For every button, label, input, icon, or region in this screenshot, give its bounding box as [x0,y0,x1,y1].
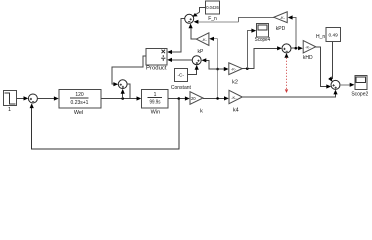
scope block Scope2 [351,75,368,97]
svg-text:kPD: kPD [276,26,286,32]
svg-text:-K-: -K- [231,95,237,100]
svg-text:Wel: Wel [74,110,83,116]
wire junction left into SumC right input [202,58,218,69]
svg-text:F_n: F_n [208,16,217,22]
product block Product (inputs on right side) [146,48,167,71]
scope block Scope4 [255,23,271,43]
svg-text:-K-: -K- [305,45,311,50]
constant block H_n 0.49 [316,28,340,42]
sum junction Sum1 [28,94,37,103]
svg-text:Scope2: Scope2 [351,92,368,98]
wire kHD right then down into Sum3 left input [316,47,331,89]
transfer function block Win 1/99.9s [142,90,169,116]
step source block "1" [4,91,17,114]
transfer function block Wel 120/(0.23s+1) [59,89,101,116]
feedback wire down, left, up into Sum1 bottom [30,99,179,150]
wire Sum4 output right into kHD [291,46,303,50]
main wire Wel to Win [101,96,141,100]
sum junction Sum2 [118,80,127,89]
wire k2 out right then up into Sum4 left input [242,46,282,68]
wire F_n left then down into SumF top-right [193,7,206,16]
svg-text:k2: k2 [232,80,238,86]
sum junction Sum4 [282,44,291,53]
svg-text:-K-: -K- [202,37,208,42]
gain triangle k (20) [190,92,203,115]
svg-text:H_n: H_n [316,34,325,40]
wire k to k4 [203,96,229,100]
wire SumC output left into Product divide port [167,58,192,62]
wire Sum3 output into Scope2 [340,83,355,87]
wire Win to gain k [168,96,190,100]
svg-text:0.0426: 0.0426 [206,5,219,10]
gain triangle kPD (points left) [274,12,287,32]
svg-text:Scope4: Scope4 [255,37,271,43]
constant block F_n 0.0426 [206,1,220,22]
svg-text:-C-: -C- [177,72,184,78]
gain triangle kP (points left) [196,33,209,55]
svg-text:0.49: 0.49 [329,33,339,39]
svg-text:kP: kP [197,49,204,55]
wire branch up into Scope4 [247,29,256,69]
wire SumF output down into Product multiply port [167,19,185,55]
svg-text:1: 1 [8,107,11,113]
wire kP output left then up into SumF bottom [189,24,197,40]
wire H_n down into Sum3 top-left [328,42,332,82]
svg-text:Win: Win [151,109,160,115]
svg-text:120: 120 [75,92,84,98]
wire Sum2 output right and down to main line [127,84,130,98]
junction dot feedback tap [178,97,181,100]
wire Constant right then up into SumC bottom [187,65,198,75]
svg-text:0.23s+1: 0.23s+1 [71,100,89,106]
svg-text:-K-: -K- [280,15,286,20]
junction dot on main line below Sum2 [121,97,124,100]
wire gray line top into gain kP input [209,37,217,41]
wire junction right into gain k2 input [218,67,229,71]
sum junction Sum3 [331,80,340,89]
gain triangle k2 [229,63,242,86]
gain triangle kHD [303,41,316,61]
svg-text:Product: Product [146,66,167,72]
svg-text:-K-: -K- [231,66,237,71]
svg-text:99.9s: 99.9s [150,99,161,105]
svg-text:Constant: Constant [171,85,192,91]
red dashed unconnected line below Sum4 [284,53,288,93]
gain triangle k4 [229,90,242,113]
main wire k4 output right then up into Sum3 bottom [242,90,337,98]
junction dot sum4 output [295,47,298,50]
long gray vertical wire (speed feedback signal) [217,39,219,99]
svg-text:k: k [200,109,203,115]
svg-text:k4: k4 [233,108,239,114]
wire branch up into Sum2 bottom [121,89,125,99]
wire step to Sum1 [17,96,29,100]
svg-text:20: 20 [191,96,196,101]
svg-text:kHD: kHD [303,55,313,61]
wire Sum4 output up into kPD input [288,15,296,48]
junction dot gray wire on main line [216,97,219,100]
junction dot gray wire mid [216,68,219,71]
junction dot k2 output [246,67,249,70]
constant block Constant [171,68,192,91]
sum junction SumC [192,56,201,65]
wire Product output down-left into Sum2 left input [112,56,146,86]
sum junction SumF [185,14,194,23]
wire kPD output long gray wire into SumF right input [194,17,274,24]
wire Sum1 to Wel [37,96,58,100]
